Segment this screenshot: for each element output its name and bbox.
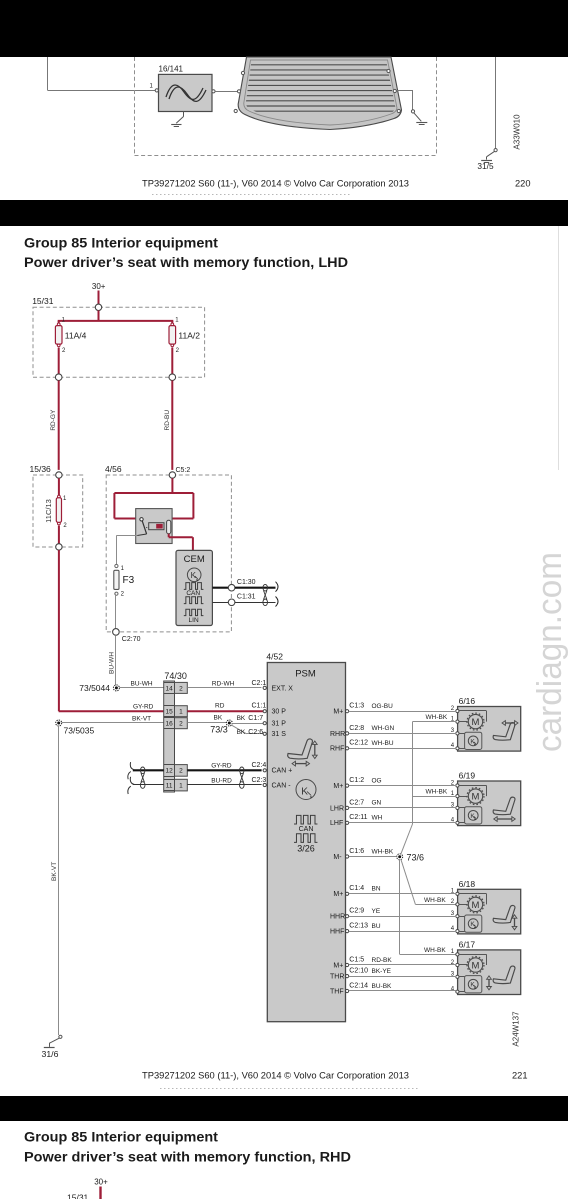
svg-text:LHR: LHR [330, 805, 344, 812]
svg-text:15/36: 15/36 [30, 464, 52, 474]
svg-text:WH-BK: WH-BK [424, 947, 446, 954]
svg-text:220: 220 [515, 178, 531, 188]
svg-text:30 P: 30 P [272, 709, 287, 716]
svg-text:2: 2 [121, 592, 125, 598]
svg-text:BU: BU [372, 923, 381, 930]
svg-text:THR: THR [330, 974, 344, 981]
svg-text:11A/4: 11A/4 [65, 330, 87, 340]
svg-text:30+: 30+ [92, 282, 106, 291]
svg-text:31/6: 31/6 [42, 1049, 59, 1059]
svg-text:73/3: 73/3 [210, 725, 228, 735]
svg-text:1: 1 [179, 782, 183, 789]
svg-text:BU-WH: BU-WH [131, 680, 153, 687]
svg-text:BK-VT: BK-VT [132, 715, 151, 722]
svg-text:HHR: HHR [330, 914, 345, 921]
svg-text:C2:12: C2:12 [349, 740, 368, 747]
svg-text:C1:3: C1:3 [349, 703, 364, 710]
svg-text:73/5035: 73/5035 [64, 726, 95, 736]
svg-text:THF: THF [330, 988, 344, 995]
svg-text:2: 2 [179, 768, 183, 775]
svg-text:RHF: RHF [330, 746, 344, 753]
svg-text:1: 1 [121, 566, 125, 572]
svg-text:M+: M+ [333, 891, 343, 898]
svg-text:C2:4: C2:4 [252, 762, 267, 769]
svg-text:WH-BK: WH-BK [426, 714, 448, 721]
svg-text:TP39271202 S60 (11-), V60 2014: TP39271202 S60 (11-), V60 2014 © Volvo C… [142, 178, 409, 188]
svg-text:C1:1: C1:1 [252, 703, 267, 710]
svg-text:OG-BU: OG-BU [372, 703, 394, 710]
svg-text:6/18: 6/18 [459, 879, 476, 889]
svg-text:1: 1 [63, 496, 67, 502]
svg-text:6/16: 6/16 [459, 696, 476, 706]
svg-text:BK: BK [214, 715, 223, 722]
svg-text:12: 12 [165, 768, 173, 775]
svg-text:BK: BK [237, 729, 246, 736]
svg-text:BK: BK [237, 715, 246, 722]
svg-text:WH-BK: WH-BK [426, 789, 448, 796]
svg-text:C1:30: C1:30 [237, 579, 256, 586]
svg-text:BU-WH: BU-WH [109, 652, 116, 674]
svg-text:C2:9: C2:9 [349, 908, 364, 915]
svg-text:221: 221 [512, 1070, 528, 1080]
svg-text:M+: M+ [333, 783, 343, 790]
svg-text:4/56: 4/56 [105, 464, 122, 474]
svg-text:CAN: CAN [186, 590, 200, 597]
svg-text:BU-BK: BU-BK [372, 983, 393, 990]
svg-text:Power driver’s seat with memor: Power driver’s seat with memory function… [24, 255, 348, 270]
svg-text:15: 15 [165, 709, 173, 716]
svg-text:11: 11 [166, 782, 173, 789]
svg-text:RD: RD [215, 703, 225, 710]
svg-text:A24W137: A24W137 [512, 1011, 521, 1047]
svg-text:4/52: 4/52 [266, 652, 283, 662]
svg-text:C2:70: C2:70 [122, 636, 141, 643]
svg-text:CAN -: CAN - [272, 782, 292, 789]
svg-text:C1:7: C1:7 [248, 715, 263, 722]
svg-text:73/5044: 73/5044 [79, 683, 110, 693]
svg-text:2: 2 [62, 348, 66, 354]
svg-text:31 S: 31 S [272, 731, 287, 738]
svg-text:RD-GY: RD-GY [50, 409, 57, 431]
svg-text:F3: F3 [123, 575, 135, 586]
svg-text:1: 1 [149, 84, 153, 90]
svg-text:WH-GN: WH-GN [372, 725, 395, 732]
svg-text:2: 2 [179, 685, 183, 692]
svg-text:16/141: 16/141 [159, 65, 184, 74]
svg-text:K: K [191, 571, 197, 580]
svg-text:M+: M+ [333, 709, 343, 716]
svg-text:2: 2 [176, 348, 180, 354]
svg-text:16: 16 [165, 720, 173, 727]
svg-text:4: 4 [451, 987, 455, 993]
svg-text:BU-RD: BU-RD [211, 777, 232, 784]
svg-text:M: M [472, 717, 480, 728]
svg-text:M: M [472, 960, 480, 971]
svg-text:C1:31: C1:31 [237, 593, 256, 600]
svg-text:30+: 30+ [94, 1177, 108, 1186]
svg-text:CAN: CAN [299, 826, 314, 833]
svg-text:C2:7: C2:7 [349, 799, 364, 806]
svg-text:M+: M+ [333, 962, 343, 969]
svg-text:TP39271202 S60 (11-), V60 2014: TP39271202 S60 (11-), V60 2014 © Volvo C… [142, 1070, 409, 1080]
svg-text:1: 1 [179, 709, 183, 716]
svg-text:74/30: 74/30 [164, 671, 187, 681]
svg-text:GY-RD: GY-RD [133, 704, 154, 711]
svg-text:HHF: HHF [330, 929, 344, 936]
svg-text:C2:14: C2:14 [349, 982, 368, 989]
svg-text:31/5: 31/5 [477, 161, 494, 171]
svg-text:M: M [472, 792, 480, 803]
svg-text:31 P: 31 P [272, 721, 287, 728]
svg-text:C2:10: C2:10 [349, 968, 368, 975]
svg-text:6/17: 6/17 [459, 940, 476, 950]
svg-text:RHR: RHR [330, 731, 345, 738]
svg-text:LIN: LIN [189, 617, 199, 624]
svg-text:LHF: LHF [330, 820, 343, 827]
svg-text:C1:4: C1:4 [349, 885, 364, 892]
svg-text:CAN +: CAN + [272, 768, 293, 775]
svg-text:2: 2 [63, 523, 67, 529]
svg-text:OG: OG [372, 777, 382, 784]
svg-text:GN: GN [372, 800, 382, 807]
svg-text:WH-BK: WH-BK [372, 848, 394, 855]
svg-text:C1:5: C1:5 [349, 956, 364, 963]
svg-text:BN: BN [372, 886, 381, 893]
svg-text:3/26: 3/26 [297, 844, 315, 854]
svg-text:14: 14 [165, 685, 173, 692]
svg-text:BK-YE: BK-YE [372, 968, 392, 975]
svg-text:C1:6: C1:6 [349, 848, 364, 855]
svg-text:1: 1 [175, 317, 179, 323]
svg-text:11C/13: 11C/13 [44, 499, 53, 523]
svg-text:2: 2 [451, 706, 455, 712]
svg-text:BK-VT: BK-VT [51, 862, 58, 881]
svg-text:RD-BU: RD-BU [164, 410, 171, 431]
svg-text:C2:8: C2:8 [349, 725, 364, 732]
svg-text:RD-BK: RD-BK [372, 957, 393, 964]
svg-text:C5:2: C5:2 [176, 467, 191, 474]
svg-text:11A/2: 11A/2 [178, 330, 200, 340]
svg-text:Group 85 Interior equipment: Group 85 Interior equipment [24, 1130, 219, 1145]
svg-text:WH-BU: WH-BU [372, 740, 394, 747]
svg-text:73/6: 73/6 [407, 852, 425, 862]
svg-text:RD-WH: RD-WH [212, 680, 235, 687]
svg-text:6/19: 6/19 [459, 771, 476, 781]
svg-text:WH-BK: WH-BK [424, 897, 446, 904]
svg-text:M: M [472, 900, 480, 911]
svg-text:Power driver’s seat with memor: Power driver’s seat with memory function… [24, 1150, 351, 1165]
svg-text:15/31: 15/31 [67, 1193, 89, 1199]
svg-text:15/31: 15/31 [32, 296, 54, 306]
svg-text:2: 2 [179, 720, 183, 727]
svg-text:cardiagn.com: cardiagn.com [531, 552, 568, 752]
svg-text:C2:13: C2:13 [349, 923, 368, 930]
svg-text:C1:2: C1:2 [349, 777, 364, 784]
svg-text:M-: M- [333, 854, 342, 861]
svg-text:YE: YE [372, 908, 381, 915]
svg-text:WH: WH [372, 815, 383, 822]
svg-text:CEM: CEM [184, 554, 205, 565]
svg-text:GY-RD: GY-RD [211, 763, 232, 770]
svg-text:Group 85 Interior equipment: Group 85 Interior equipment [24, 236, 219, 251]
svg-text:C2:3: C2:3 [252, 777, 267, 784]
svg-text:C2:6: C2:6 [248, 729, 263, 736]
svg-text:C2:11: C2:11 [349, 814, 367, 821]
svg-text:PSM: PSM [295, 669, 316, 680]
svg-text:A33W010: A33W010 [513, 114, 522, 150]
svg-text:EXT. X: EXT. X [272, 685, 294, 692]
